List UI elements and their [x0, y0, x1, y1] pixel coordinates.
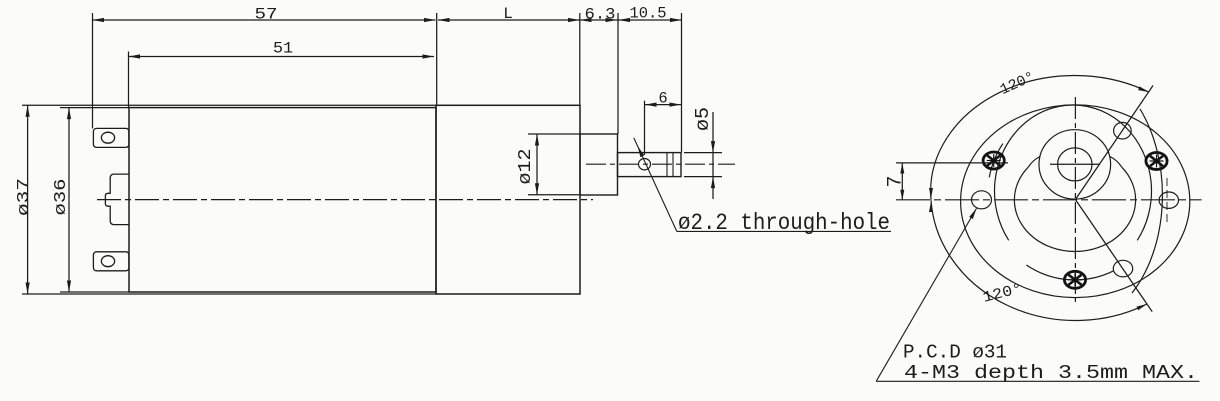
svg-text:ø36: ø36 — [52, 179, 71, 216]
dim 120 top arc — [931, 76, 1149, 200]
svg-text:51: 51 — [273, 40, 293, 58]
extension line 57 left — [92, 13, 94, 128]
leader arrow P.C.D — [969, 208, 976, 219]
M3 hole top-right — [1114, 122, 1132, 139]
svg-text:10.5: 10.5 — [630, 5, 667, 23]
leader underline d2.2 — [677, 230, 891, 232]
svg-text:L: L — [503, 5, 513, 23]
dim 6 line — [645, 104, 682, 106]
screw pitch arc bottom — [1026, 265, 1113, 280]
dim 51 line — [129, 56, 435, 58]
dim 51 right arrow — [423, 54, 435, 58]
vertical centerline right view — [1074, 97, 1076, 302]
svg-text:4-M3 depth 3.5mm MAX.: 4-M3 depth 3.5mm MAX. — [904, 362, 1198, 384]
output shaft — [618, 153, 682, 177]
shaft groove — [666, 153, 668, 177]
output shaft circle — [1058, 148, 1092, 181]
motor body — [129, 108, 436, 292]
mounting tab top — [93, 128, 128, 147]
d5 arrow top (outside, pointing down) — [711, 141, 715, 153]
dim120 top arc right arrow — [1138, 86, 1149, 92]
extension line gearbox face — [579, 13, 581, 105]
dim 6 extension left (through hole center) — [644, 101, 646, 155]
d37 arrow up — [26, 105, 30, 117]
output bearing boss — [580, 134, 618, 195]
dim L left arrow — [438, 18, 450, 22]
extension line boss face — [617, 13, 619, 134]
dim d12 extension bottom — [528, 194, 580, 196]
dim 6.3 right arrow — [606, 18, 618, 22]
dim 51 left arrow — [129, 54, 141, 58]
svg-text:6.3: 6.3 — [585, 5, 616, 23]
shaft axis centerline — [586, 163, 735, 165]
d5 arrow bottom (outside, pointing up) — [711, 177, 715, 189]
dim 7 extension line — [896, 162, 1008, 164]
dim d37 extension bottom — [22, 293, 436, 295]
svg-text:ø5: ø5 — [692, 107, 714, 131]
dim 7 line — [901, 163, 903, 200]
dim 6.3 line — [580, 19, 618, 21]
dim d12 extension top — [528, 133, 580, 135]
screw left — [983, 152, 1004, 169]
dim 57 line — [93, 19, 436, 21]
dim d36 line — [68, 108, 70, 292]
d36 arrow down — [67, 281, 71, 293]
dim120 bottom arc left arrow — [929, 202, 933, 213]
motor axis centerline — [97, 199, 593, 201]
dim 57 left arrow — [93, 18, 105, 22]
output boss circle — [1039, 130, 1111, 199]
svg-text:57: 57 — [255, 5, 278, 23]
extension line shaft tip — [681, 13, 683, 153]
screw pitch arc left — [989, 144, 1003, 178]
dim120 bottom arc right arrow — [1137, 304, 1147, 310]
dim d37 extension top — [22, 104, 436, 106]
through-hole circle — [639, 159, 651, 170]
M3 hole right — [1159, 192, 1178, 208]
leader underline P.C.D — [876, 380, 1199, 382]
tab hole bottom — [101, 256, 114, 267]
dim 7 arrow up — [900, 163, 904, 174]
dim arc right side (between arrows) — [1132, 109, 1162, 293]
dim d5 line — [712, 112, 714, 199]
svg-text:ø37: ø37 — [15, 178, 34, 216]
svg-text:P.C.D ø31: P.C.D ø31 — [903, 342, 1007, 364]
dim 57 right arrow — [424, 18, 436, 22]
bell horn curl right — [1110, 157, 1122, 167]
gear cavity bell arc — [1014, 167, 1135, 252]
extension line 51 left — [128, 52, 130, 108]
horizontal centerline right view — [896, 199, 1202, 201]
svg-text:120°: 120° — [998, 69, 1038, 99]
axis top-right hole — [1075, 86, 1153, 200]
svg-text:7: 7 — [884, 175, 907, 187]
outer flange circle — [961, 105, 1190, 298]
dim 7 arrow down — [900, 190, 904, 201]
extension line motor/gearbox — [436, 13, 438, 105]
mounting tab bottom — [93, 252, 128, 271]
rear boss — [105, 174, 128, 225]
dim 6 left arrow — [645, 103, 657, 107]
dim 6.3 left arrow — [580, 18, 592, 22]
gearbox body — [436, 105, 580, 294]
svg-text:6: 6 — [658, 90, 667, 108]
dim d36 extension top — [60, 107, 129, 109]
dim 10.5 left arrow — [619, 18, 631, 22]
dim d5 extension bottom — [684, 176, 722, 178]
right hole centermark — [1166, 178, 1168, 222]
leader arrow d2.2 — [638, 146, 645, 157]
dim 10.5 right arrow — [670, 18, 682, 22]
dim d37 line — [27, 105, 29, 294]
dim L right arrow — [568, 18, 580, 22]
d37 arrow down — [26, 283, 30, 295]
dim120 top arc left arrow — [929, 188, 933, 199]
dim 120 bottom arc — [931, 200, 1147, 320]
dim L line — [438, 19, 580, 21]
dim 10.5 line — [618, 19, 683, 21]
screw right — [1146, 153, 1167, 170]
svg-text:ø12: ø12 — [516, 149, 536, 185]
tab hole top — [101, 132, 114, 143]
d12 arrow up — [535, 134, 539, 146]
leader P.C.D — [876, 208, 976, 381]
M3 hole left — [972, 191, 992, 209]
output center horizontal mark — [1050, 163, 1100, 165]
dim d12 line — [536, 134, 538, 195]
d12 arrow down — [535, 183, 539, 195]
svg-text:ø2.2 through-hole: ø2.2 through-hole — [678, 210, 890, 237]
dim d36 extension bottom — [60, 291, 129, 293]
dim d5 extension top — [684, 152, 722, 154]
bell horn curl left — [1028, 157, 1040, 167]
d36 arrow up — [67, 108, 71, 120]
leader line d2.2 — [634, 138, 677, 232]
M3 hole bottom-right — [1113, 260, 1132, 277]
screw bottom — [1064, 271, 1085, 288]
inner rim circle (arc, bottom omitted) — [995, 105, 1152, 240]
axis bottom-right hole — [1075, 200, 1152, 312]
dim 6 right arrow — [670, 103, 682, 107]
